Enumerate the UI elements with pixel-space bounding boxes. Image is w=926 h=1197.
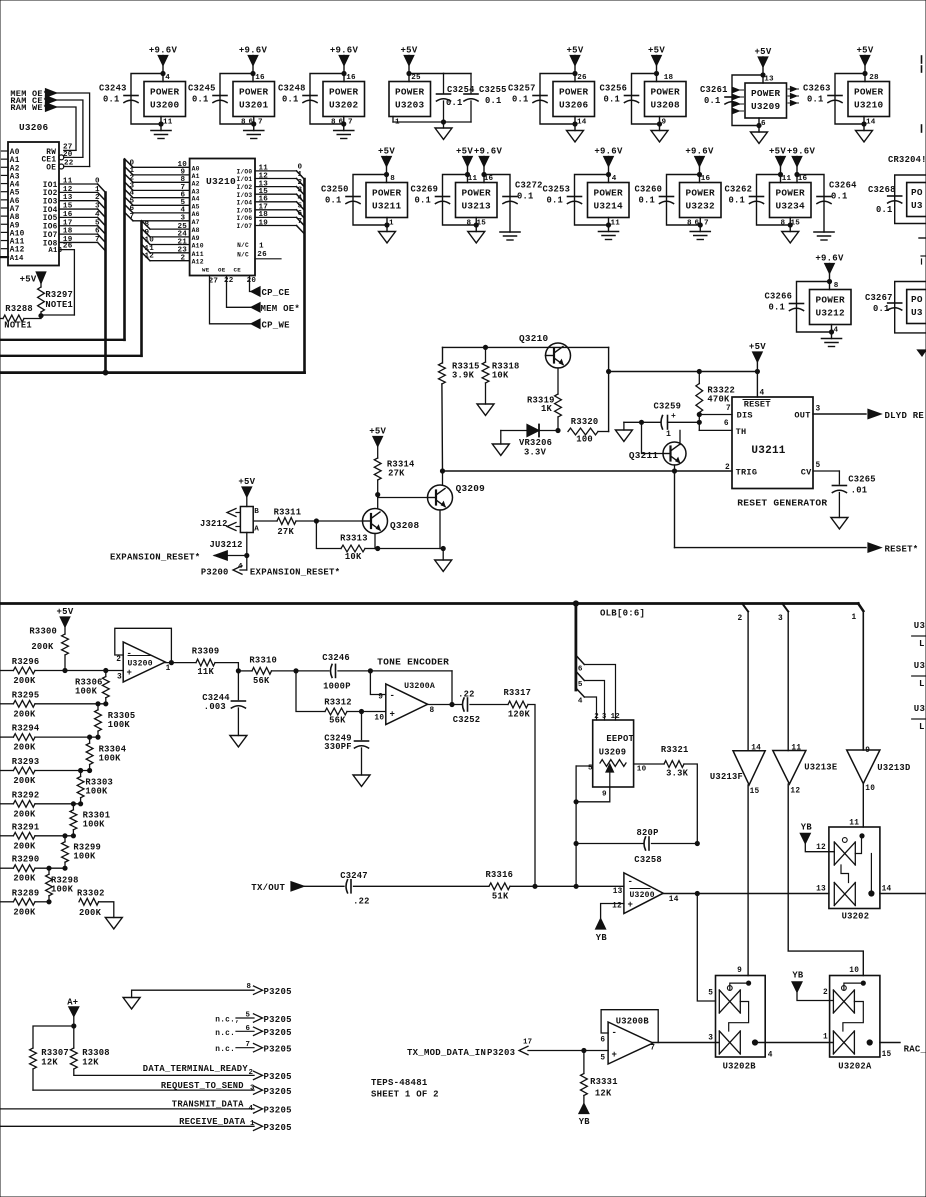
- svg-text:TEPS-48481: TEPS-48481: [371, 1078, 428, 1088]
- svg-text:A11: A11: [192, 251, 204, 258]
- svg-text:I/O3: I/O3: [237, 192, 253, 199]
- power IC U3210 (power): [848, 82, 890, 117]
- wire Q3211 collector: [679, 430, 681, 444]
- svg-text:5: 5: [246, 1012, 251, 1020]
- svg-text:I/O7: I/O7: [237, 223, 253, 230]
- svg-text:EXPANSION_RESET*: EXPANSION_RESET*: [250, 568, 340, 578]
- svg-text:IO4: IO4: [43, 207, 58, 215]
- svg-text:1: 1: [823, 1034, 828, 1042]
- svg-text:26: 26: [257, 251, 267, 259]
- svg-text:-: -: [127, 649, 133, 659]
- svg-text:U3: U3: [914, 661, 925, 671]
- buffer U3213E: [773, 751, 806, 785]
- svg-text:+5V: +5V: [769, 147, 786, 157]
- svg-text:11K: 11K: [197, 667, 214, 677]
- svg-text:0.1: 0.1: [769, 303, 786, 313]
- svg-text:+9.6V: +9.6V: [474, 147, 503, 157]
- resistor R3319: [555, 394, 562, 417]
- svg-text:8: 8: [241, 119, 246, 127]
- svg-text:POWER: POWER: [239, 87, 269, 98]
- resistor R3307: [33, 1026, 74, 1048]
- resistor R3310: [238, 670, 252, 672]
- svg-text:9: 9: [602, 791, 607, 799]
- svg-text:0.1: 0.1: [485, 96, 502, 106]
- svg-text:6: 6: [578, 666, 583, 674]
- svg-text:200K: 200K: [13, 907, 36, 917]
- svg-text:SHEET 1 OF 2: SHEET 1 OF 2: [371, 1090, 439, 1100]
- svg-text:100K: 100K: [73, 852, 96, 862]
- wire top rail of reset section: [443, 346, 609, 348]
- svg-text:0.1: 0.1: [876, 205, 893, 215]
- wire OUT / DLYD RESET*: [813, 413, 866, 415]
- svg-text:A6: A6: [10, 198, 20, 206]
- svg-text:2: 2: [116, 656, 121, 664]
- svg-text:6: 6: [761, 120, 766, 128]
- svg-text:10K: 10K: [492, 371, 509, 381]
- svg-text:+5V: +5V: [749, 342, 766, 352]
- svg-text:0.1: 0.1: [873, 304, 890, 314]
- svg-text:C3252: C3252: [453, 715, 481, 725]
- resistor R3315: [439, 363, 446, 384]
- svg-text:8: 8: [145, 221, 150, 229]
- resistor R3309: [196, 659, 215, 666]
- svg-text:.22: .22: [458, 690, 475, 700]
- svg-text:R3311: R3311: [274, 508, 302, 518]
- svg-text:14: 14: [866, 119, 876, 127]
- svg-text:12: 12: [816, 844, 826, 852]
- wire U3200B feedback: [601, 1010, 658, 1043]
- transistor Q3208: [363, 509, 388, 534]
- svg-text:P3205: P3205: [264, 1045, 292, 1055]
- svg-text:EXPANSION_RESET*: EXPANSION_RESET*: [110, 553, 200, 563]
- svg-text:C3269: C3269: [411, 185, 439, 195]
- svg-text:14: 14: [577, 119, 587, 127]
- svg-text:1: 1: [250, 1120, 255, 1128]
- svg-text:U3202B: U3202B: [723, 1062, 757, 1072]
- svg-text:8: 8: [687, 220, 692, 228]
- ground at U3203 caps: [392, 117, 394, 123]
- svg-text:2: 2: [249, 1069, 254, 1077]
- svg-text:RESET*: RESET*: [885, 545, 919, 555]
- svg-text:A9: A9: [192, 235, 200, 242]
- svg-text:5: 5: [578, 681, 583, 689]
- svg-text:I/O6: I/O6: [237, 215, 253, 222]
- svg-text:YB: YB: [579, 1117, 591, 1127]
- svg-text:27K: 27K: [388, 469, 405, 479]
- svg-text:IO1: IO1: [43, 182, 58, 190]
- svg-text:I/O0: I/O0: [237, 169, 253, 176]
- svg-text:7: 7: [258, 119, 263, 127]
- svg-text:RESET GENERATOR: RESET GENERATOR: [737, 498, 827, 509]
- svg-text:P3205: P3205: [264, 1087, 292, 1097]
- resistor R3331: [583, 1051, 585, 1074]
- svg-text:U3202: U3202: [842, 912, 870, 922]
- svg-text:+: +: [390, 710, 396, 720]
- svg-text:6: 6: [600, 1037, 605, 1045]
- resistor R3289: [0, 901, 13, 903]
- svg-text:100K: 100K: [75, 687, 98, 697]
- svg-text:11: 11: [145, 245, 155, 253]
- wire Q3208 collector: [377, 495, 379, 508]
- svg-text:Q3210: Q3210: [519, 333, 549, 344]
- wire R3321 chain to U3202B pin5: [696, 844, 698, 894]
- wire U3202 pin14 out: [880, 893, 926, 895]
- svg-text:Q3209: Q3209: [456, 483, 486, 494]
- ground to P3205 pin8: [132, 990, 254, 997]
- resistor R3297: [40, 283, 42, 288]
- svg-text:R3292: R3292: [12, 790, 40, 800]
- svg-text:4: 4: [249, 1105, 254, 1113]
- svg-text:100K: 100K: [99, 753, 122, 763]
- resistor R3313: [316, 521, 341, 549]
- svg-text:0.1: 0.1: [831, 192, 848, 202]
- svg-text:8: 8: [781, 220, 786, 228]
- wire U3200 feedback: [115, 628, 172, 662]
- svg-text:C3256: C3256: [600, 84, 628, 94]
- svg-text:L: L: [919, 722, 925, 732]
- svg-text:CE1: CE1: [42, 156, 57, 164]
- bus tap 2: [742, 604, 748, 612]
- svg-text:U3200: U3200: [128, 660, 153, 669]
- svg-text:OE: OE: [218, 267, 226, 274]
- resistor R3299: [63, 834, 67, 838]
- svg-text:3: 3: [708, 1035, 713, 1043]
- svg-text:12K: 12K: [41, 1058, 58, 1068]
- svg-text:-: -: [628, 877, 634, 887]
- svg-text:TONE ENCODER: TONE ENCODER: [377, 657, 449, 668]
- svg-text:A0: A0: [192, 165, 200, 172]
- wire U3200 mod +input YB: [601, 904, 624, 918]
- EEPOT U3209: [593, 720, 634, 787]
- IC U3211 reset generator: [732, 397, 813, 489]
- svg-text:U3200A: U3200A: [404, 682, 435, 691]
- svg-text:+9.6V: +9.6V: [149, 46, 178, 56]
- power IC U3216 (partial, cut at edge): [895, 282, 926, 333]
- svg-text:POWER: POWER: [651, 87, 681, 98]
- svg-text:26: 26: [577, 74, 587, 82]
- wire emitter rail to ground: [378, 548, 444, 550]
- svg-text:NOTE1: NOTE1: [4, 321, 32, 331]
- bus line to left edge (lower): [0, 371, 305, 374]
- svg-text:100K: 100K: [83, 819, 106, 829]
- resistor R3311: [253, 520, 277, 522]
- bus U3210 address upper vertical: [123, 160, 126, 340]
- svg-text:A11: A11: [10, 239, 25, 247]
- svg-text:6: 6: [246, 1025, 251, 1033]
- svg-text:R3308: R3308: [82, 1048, 110, 1058]
- partial symbols at right edge: [921, 56, 923, 63]
- svg-text:R3294: R3294: [12, 724, 40, 734]
- svg-text:R3300: R3300: [29, 627, 57, 637]
- svg-text:0.1: 0.1: [282, 95, 299, 105]
- svg-text:11: 11: [791, 745, 801, 753]
- svg-text:A: A: [254, 526, 259, 534]
- resistor R3298: [47, 866, 51, 870]
- svg-text:L: L: [919, 639, 925, 649]
- svg-text:CR3204!: CR3204!: [888, 155, 926, 165]
- svg-text:3: 3: [816, 406, 821, 414]
- power IC U3234: [770, 183, 812, 218]
- svg-text:100K: 100K: [51, 885, 74, 895]
- power IC U3200: [144, 82, 186, 117]
- svg-text:+5V: +5V: [857, 46, 874, 56]
- svg-text:2: 2: [130, 174, 135, 182]
- svg-text:1: 1: [259, 243, 264, 251]
- svg-text:11: 11: [849, 820, 859, 828]
- svg-text:POWER: POWER: [594, 188, 624, 199]
- svg-text:5: 5: [816, 462, 821, 470]
- svg-text:R3293: R3293: [12, 757, 40, 767]
- resistor R3292: [0, 803, 13, 805]
- svg-text:10: 10: [865, 785, 875, 793]
- svg-text:0: 0: [95, 178, 100, 186]
- wire U3213D output to U3202: [862, 784, 864, 827]
- svg-text:12: 12: [611, 713, 620, 721]
- svg-text:+9.6V: +9.6V: [815, 254, 844, 264]
- svg-text:8: 8: [247, 983, 252, 991]
- svg-text:PO: PO: [911, 294, 923, 305]
- svg-text:Q3208: Q3208: [390, 520, 420, 531]
- svg-text:1: 1: [852, 614, 857, 622]
- svg-text:A6: A6: [192, 211, 200, 218]
- svg-text:R3295: R3295: [12, 690, 40, 700]
- jumper J3212: [240, 507, 253, 533]
- svg-text:1: 1: [95, 186, 100, 194]
- svg-text:4: 4: [165, 74, 170, 82]
- svg-text:3: 3: [95, 203, 100, 211]
- svg-text:+9.6V: +9.6V: [239, 46, 268, 56]
- svg-text:POWER: POWER: [150, 87, 180, 98]
- wire MEM OE* (from U3210): [227, 276, 252, 308]
- svg-text:2: 2: [823, 989, 828, 997]
- svg-text:REQUEST_TO_SEND: REQUEST_TO_SEND: [161, 1081, 244, 1091]
- switch U3202: [829, 827, 880, 909]
- IC U3206 body and address pins: [8, 142, 59, 266]
- svg-text:R3289: R3289: [12, 888, 40, 898]
- svg-text:U3211: U3211: [751, 445, 785, 457]
- resistor R3321: [634, 763, 664, 765]
- svg-text:U3212: U3212: [816, 308, 846, 319]
- transistor Q3209: [428, 485, 453, 510]
- svg-text:100: 100: [576, 435, 593, 445]
- svg-text:200K: 200K: [13, 776, 36, 786]
- svg-text:RAC_: RAC_: [904, 1045, 926, 1055]
- svg-text:A5: A5: [10, 190, 20, 198]
- svg-text:U3232: U3232: [686, 201, 716, 212]
- svg-text:POWER: POWER: [559, 87, 589, 98]
- power IC U3213: [456, 183, 498, 218]
- svg-text:5: 5: [600, 1055, 605, 1063]
- svg-text:12K: 12K: [595, 1089, 612, 1099]
- bus U3210 data vertical: [303, 179, 306, 373]
- resistor R3304: [88, 735, 92, 739]
- svg-text:16: 16: [346, 74, 356, 82]
- svg-text:U3213D: U3213D: [877, 763, 910, 773]
- wire CV to C3265: [813, 470, 839, 472]
- transistor Q3211: [663, 442, 686, 465]
- capacitor C3255: [444, 73, 472, 75]
- svg-text:U3203: U3203: [395, 100, 425, 111]
- svg-text:IO6: IO6: [43, 224, 58, 232]
- svg-text:POWER: POWER: [329, 87, 359, 98]
- capacitor C3254: [409, 73, 444, 75]
- wire TRIG rail: [443, 470, 733, 472]
- svg-text:A13: A13: [48, 247, 62, 255]
- svg-text:EEPOT: EEPOT: [606, 734, 634, 744]
- svg-text:R3302: R3302: [77, 889, 105, 899]
- svg-text:0.1: 0.1: [192, 95, 209, 105]
- svg-text:3: 3: [117, 674, 122, 682]
- svg-text:+5V: +5V: [378, 147, 395, 157]
- wire EEPOT pin5: [576, 765, 593, 767]
- wire U3200 mod output: [663, 893, 829, 895]
- svg-text:C3257: C3257: [508, 84, 536, 94]
- svg-text:U3: U3: [911, 307, 923, 318]
- svg-text:A12: A12: [10, 247, 25, 255]
- svg-text:8: 8: [390, 175, 395, 183]
- svg-text:U3213E: U3213E: [804, 763, 837, 773]
- svg-text:4: 4: [95, 211, 100, 219]
- ground at VR3206: [500, 431, 502, 445]
- svg-text:4: 4: [298, 194, 303, 202]
- op-amp U3200 (modulator): [624, 873, 663, 914]
- wire U3202B to U3202A: [755, 1042, 833, 1044]
- svg-text:U3210: U3210: [206, 176, 236, 187]
- wire +5V rail to U3211: [609, 371, 758, 373]
- svg-text:U3200: U3200: [150, 100, 180, 111]
- svg-text:4: 4: [768, 1052, 773, 1060]
- svg-text:8: 8: [834, 282, 839, 290]
- svg-text:56K: 56K: [329, 716, 346, 726]
- svg-text:PO: PO: [911, 187, 923, 198]
- svg-text:4: 4: [578, 698, 583, 706]
- svg-text:+5V: +5V: [369, 427, 386, 437]
- svg-text:P3205: P3205: [264, 1015, 292, 1025]
- svg-text:A3: A3: [10, 173, 20, 181]
- svg-text:0.1: 0.1: [807, 95, 824, 105]
- svg-text:C3261: C3261: [700, 85, 728, 95]
- svg-text:U3234: U3234: [776, 201, 806, 212]
- svg-text:3: 3: [778, 615, 783, 623]
- svg-text:-: -: [390, 691, 396, 701]
- svg-text:A4: A4: [10, 182, 20, 190]
- svg-text:U3210: U3210: [854, 100, 884, 111]
- svg-text:10: 10: [849, 967, 859, 975]
- buffer U3213F: [733, 751, 765, 785]
- wire CP_CE: [250, 276, 252, 292]
- svg-text:WE: WE: [202, 267, 210, 274]
- svg-text:CV: CV: [801, 468, 812, 478]
- IC U3210 body: [190, 159, 255, 276]
- svg-text:4: 4: [834, 327, 839, 335]
- svg-text:A7: A7: [10, 206, 20, 214]
- svg-text:+9.6V: +9.6V: [594, 147, 623, 157]
- svg-text:OE: OE: [46, 164, 56, 172]
- svg-text:100K: 100K: [108, 720, 131, 730]
- svg-text:U3213F: U3213F: [710, 772, 743, 782]
- power IC U3206 (power): [553, 82, 595, 117]
- svg-text:0.1: 0.1: [103, 95, 120, 105]
- svg-text:R3316: R3316: [486, 870, 514, 880]
- power IC U3214: [588, 183, 630, 218]
- resistor R3306: [104, 668, 108, 672]
- svg-text:1: 1: [166, 665, 171, 673]
- svg-text:R3310: R3310: [249, 656, 277, 666]
- svg-text:DLYD RE: DLYD RE: [885, 411, 925, 421]
- transistor Q3210: [546, 343, 571, 368]
- wire J3212 to P3200: [246, 533, 248, 571]
- svg-text:0.1: 0.1: [325, 196, 342, 206]
- wire Q3208 emitter: [374, 534, 376, 549]
- svg-text:POWER: POWER: [854, 87, 884, 98]
- svg-text:1: 1: [389, 220, 394, 228]
- wire RECEIVE_DATA: [0, 1125, 254, 1127]
- svg-text:16: 16: [798, 175, 808, 183]
- svg-text:IO2: IO2: [43, 190, 58, 198]
- capacitor C3252: [467, 698, 469, 711]
- svg-text:R3309: R3309: [192, 647, 220, 657]
- wire C3259 left to ground: [639, 420, 643, 424]
- capacitor C3247: [304, 885, 344, 887]
- svg-text:C3243: C3243: [99, 84, 127, 94]
- svg-text:25: 25: [411, 74, 421, 82]
- resistor R3300: [60, 617, 70, 627]
- svg-text:+: +: [628, 900, 634, 910]
- svg-text:YB: YB: [801, 823, 813, 833]
- svg-text:C3248: C3248: [278, 84, 306, 94]
- svg-text:0.1: 0.1: [729, 196, 746, 206]
- svg-text:51K: 51K: [492, 892, 509, 902]
- switch U3202A: [830, 976, 880, 1058]
- svg-text:200K: 200K: [31, 642, 54, 652]
- svg-text:U3206: U3206: [559, 100, 589, 111]
- svg-text:P3205: P3205: [264, 1106, 292, 1116]
- power IC U3232: [680, 183, 722, 218]
- power IC U3203: [389, 82, 431, 117]
- wire CP_WE: [210, 276, 252, 324]
- power IC U3201: [233, 82, 275, 117]
- svg-text:C3266: C3266: [765, 292, 793, 302]
- svg-text:R3331: R3331: [590, 1077, 618, 1087]
- svg-text:16: 16: [255, 74, 265, 82]
- svg-text:11: 11: [782, 175, 792, 183]
- svg-text:200K: 200K: [79, 908, 102, 918]
- power IC U3211 (power): [366, 183, 408, 218]
- svg-text:TRIG: TRIG: [736, 468, 758, 478]
- svg-text:L: L: [919, 679, 925, 689]
- svg-text:I/O1: I/O1: [237, 176, 253, 183]
- svg-text:0.1: 0.1: [704, 96, 721, 106]
- svg-text:7: 7: [650, 1045, 655, 1053]
- svg-text:I/O2: I/O2: [237, 184, 253, 191]
- svg-text:3.3K: 3.3K: [666, 769, 689, 779]
- svg-text:8: 8: [430, 707, 435, 715]
- svg-text:POWER: POWER: [776, 188, 806, 199]
- svg-text:22: 22: [224, 277, 234, 285]
- svg-text:+5V: +5V: [456, 147, 473, 157]
- svg-text:0.1: 0.1: [547, 196, 564, 206]
- wire RAC_ out: [880, 1042, 900, 1044]
- svg-text:+: +: [671, 412, 676, 421]
- svg-text:A2: A2: [192, 180, 200, 187]
- wire Q3209 emitter: [439, 510, 441, 549]
- svg-text:POWER: POWER: [816, 295, 846, 306]
- power IC U3212: [810, 290, 852, 325]
- svg-text:+9.6V: +9.6V: [685, 147, 714, 157]
- svg-text:13: 13: [816, 886, 826, 894]
- capacitor C3246: [296, 670, 329, 672]
- svg-text:A1: A1: [10, 157, 20, 165]
